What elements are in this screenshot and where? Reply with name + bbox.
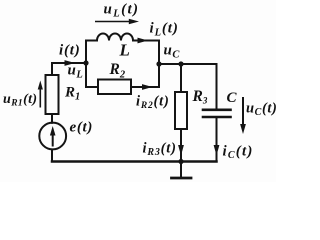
- wire: source bottom lead: [51, 150, 53, 162]
- svg-text:C: C: [227, 90, 238, 106]
- svg-text:iC(t): iC(t): [223, 144, 254, 162]
- wire: C top lead: [216, 64, 218, 109]
- wire: vertical node line x=86 (i(t) junction up to L, down to R2): [86, 41, 98, 87]
- wire: C bottom lead: [216, 118, 218, 161]
- svg-text:e(t): e(t): [70, 120, 94, 136]
- arrowhead: i(t) current on wire: [65, 60, 76, 66]
- inductor L coil: [97, 34, 133, 41]
- resistor R3: [175, 92, 187, 129]
- arrowhead: iC(t) current on C lead: [214, 145, 220, 156]
- arrow: uR1(t) reference arrow (up): [38, 81, 43, 108]
- wire: uC node horizontal line: [159, 63, 217, 65]
- arrowhead: iR2(t) current on R2 wire: [142, 84, 153, 90]
- svg-text:iL(t): iL(t): [150, 21, 179, 39]
- ground symbol: [172, 162, 192, 179]
- wire: R3 bottom lead: [180, 129, 182, 162]
- svg-text:uC(t): uC(t): [246, 101, 276, 119]
- arrow: e(t) source arrow inside circle: [50, 126, 56, 147]
- wire: top inductor branch left segment: [86, 40, 97, 42]
- arrow: uC(t) reference arrow (down): [240, 97, 246, 134]
- junction dot at R3 top (181,64): [178, 61, 183, 66]
- svg-text:uL(t): uL(t): [104, 2, 140, 20]
- source e(t) circle: [39, 123, 66, 150]
- svg-text:i(t): i(t): [59, 43, 81, 59]
- wire: bottom return wire: [52, 160, 217, 163]
- wire: R3 top lead: [180, 64, 182, 92]
- resistor R2: [98, 80, 131, 95]
- junction dot at node (86,63): [83, 60, 88, 65]
- wire: top inductor branch right segment to corner: [133, 41, 159, 65]
- arrowhead: iR3(t) current on R3 lead: [178, 145, 184, 156]
- svg-text:L: L: [119, 41, 130, 60]
- wire: node uC segment from corner down to R2 wire: [158, 64, 160, 87]
- wire: left branch top (R1 top to i(t) corner): [52, 63, 86, 75]
- capacitor C plates: [203, 110, 231, 117]
- arrowhead: iL(t) current on top wire: [138, 38, 149, 44]
- resistor R1: [46, 75, 59, 114]
- junction dot at node uC (159,64): [156, 61, 161, 66]
- arrow: uL(t) reference arrow above inductor: [95, 19, 139, 24]
- wire: source top lead to R1: [51, 114, 53, 123]
- wire: R2 output wire: [131, 86, 159, 88]
- junction dot at R3 bottom (181,161.5): [178, 159, 183, 164]
